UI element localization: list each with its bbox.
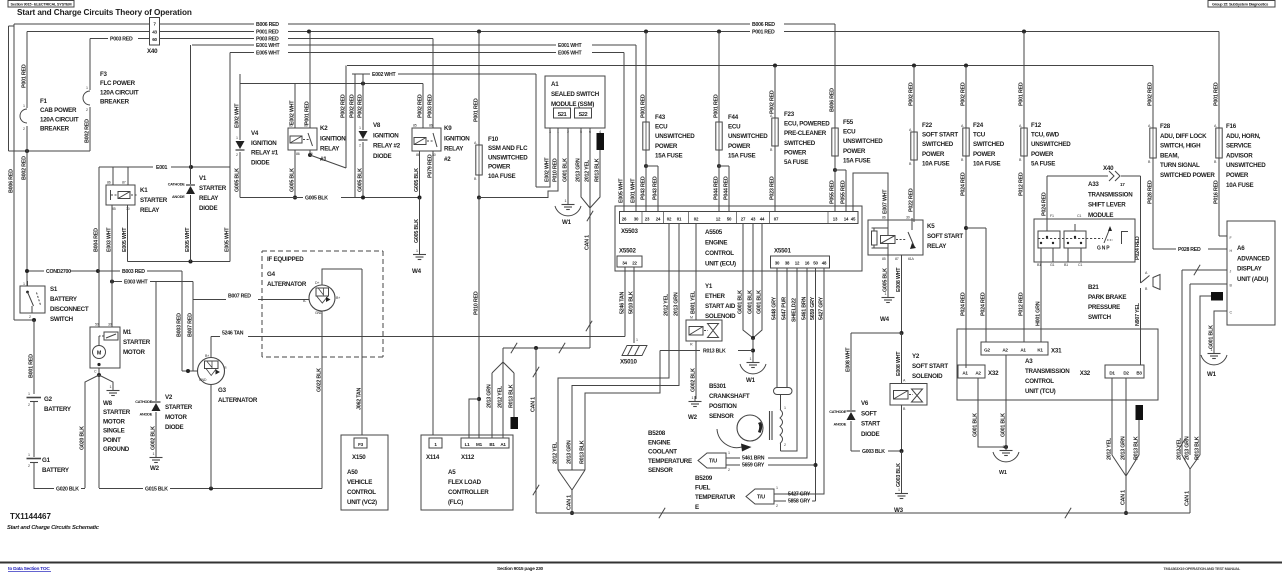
svg-text:MODULE (SSM): MODULE (SSM) (551, 101, 594, 108)
svg-text:SENSOR: SENSOR (709, 413, 734, 420)
svg-text:TEMPERATUR: TEMPERATUR (695, 494, 736, 501)
svg-text:SWITCHED POWER: SWITCHED POWER (1160, 172, 1215, 179)
svg-text:30: 30 (108, 323, 112, 327)
connector X32 left strip (958, 365, 985, 378)
connector X112 strip (461, 438, 509, 448)
wire E002 branch to K9 (422, 84, 424, 129)
svg-text:X5502: X5502 (619, 248, 636, 255)
wire P010 RED down to FLC (478, 198, 480, 439)
wire B001 YEL ECU to Y1 (695, 224, 697, 321)
module A5505 engine control unit (ECU) outline (615, 206, 862, 271)
svg-text:POWER: POWER (843, 148, 866, 155)
svg-text:BATTERY: BATTERY (44, 406, 72, 413)
svg-text:1: 1 (776, 486, 778, 490)
diode V2 starter motor diode (155, 282, 157, 402)
svg-text:5461 BRN: 5461 BRN (801, 296, 807, 320)
svg-text:SINGLE: SINGLE (103, 428, 125, 435)
svg-text:P016 RED: P016 RED (1213, 180, 1219, 204)
svg-text:E002 WHT: E002 WHT (544, 157, 550, 182)
wire P010 RED from SSM (557, 128, 559, 180)
svg-text:CATHODE: CATHODE (135, 400, 152, 404)
svg-text:W1: W1 (1207, 371, 1217, 378)
svg-text:RELAY: RELAY (320, 146, 340, 153)
svg-text:5448 GRY: 5448 GRY (771, 296, 777, 320)
svg-text:B002 RED: B002 RED (84, 119, 90, 143)
svg-text:1: 1 (86, 86, 88, 90)
dashed box IF EQUIPPED (262, 250, 383, 252)
svg-text:SHIFT LEVER: SHIFT LEVER (1088, 202, 1126, 209)
svg-text:CAN 1: CAN 1 (530, 397, 536, 412)
wire R013 BLK with terminator from SSM (597, 133, 605, 150)
wire 2013 GRN to FLC B1 (491, 373, 493, 438)
wire G003 BLK row (901, 405, 903, 451)
wire E002 WHT from SSM (536, 128, 550, 187)
svg-text:X112: X112 (461, 454, 475, 461)
svg-text:P002 RED: P002 RED (340, 94, 346, 118)
svg-text:P043 RED: P043 RED (640, 176, 646, 200)
svg-text:P079 RED: P079 RED (427, 154, 433, 178)
junction dots on P002 row (773, 64, 777, 68)
svg-text:Y2: Y2 (912, 353, 920, 360)
svg-text:S1: S1 (50, 286, 58, 293)
svg-text:F1: F1 (40, 98, 48, 105)
svg-text:2: 2 (86, 108, 88, 112)
wire CAN 1 drop from SSM (589, 208, 591, 348)
svg-text:UNSWITCHED: UNSWITCHED (1226, 162, 1266, 169)
fuse F44 ECU unswitched 15A (718, 32, 720, 123)
relay K1 starter relay (106, 185, 135, 205)
wire K9 coil to G005 bus and W4 (419, 151, 421, 198)
svg-text:G002 BLK: G002 BLK (150, 426, 156, 450)
svg-text:P043 RED: P043 RED (652, 176, 658, 200)
svg-text:M1: M1 (476, 442, 483, 447)
svg-text:1: 1 (23, 282, 25, 286)
CAN chevron merge under TCU (1112, 455, 1126, 476)
wire ADU pin J CAN (1182, 269, 1227, 271)
svg-text:P012 RED: P012 RED (1018, 292, 1024, 316)
wire G003 BLK to W3 (901, 451, 903, 491)
svg-text:STARTER: STARTER (123, 339, 151, 346)
svg-text:Start and Charge Circuits Sche: Start and Charge Circuits Schematic (7, 525, 100, 531)
wire 5010 BLK from ECU pin 22 to X5010 (633, 267, 635, 343)
svg-text:P001 RED: P001 RED (473, 98, 479, 122)
fuse F23 ECU powered pre-cleaner 5A (774, 66, 776, 119)
svg-text:R013 BLK: R013 BLK (579, 440, 585, 464)
svg-text:5427 GRY: 5427 GRY (788, 492, 811, 498)
svg-text:FLC POWER: FLC POWER (100, 80, 136, 87)
wire FLC L1 stub (469, 399, 479, 438)
svg-text:G005 BLK: G005 BLK (234, 168, 240, 192)
svg-text:START AID: START AID (705, 303, 736, 310)
svg-text:Group 15: SubSystem Diagnostic: Group 15: SubSystem Diagnostics (1212, 1, 1268, 6)
svg-text:SHIELD22: SHIELD22 (791, 298, 797, 322)
svg-text:S22: S22 (579, 112, 588, 118)
alternator G4 (309, 285, 335, 311)
svg-text:TCU: TCU (973, 132, 986, 139)
svg-text:P002 RED: P002 RED (349, 94, 355, 118)
svg-text:FUEL: FUEL (695, 485, 711, 492)
svg-text:5246 TAN: 5246 TAN (222, 331, 244, 337)
svg-text:R013 BLK: R013 BLK (594, 158, 600, 182)
wire 5427 GRY from B5209 (774, 493, 786, 495)
wire G020 BLK battery return loop (34, 463, 54, 489)
wire G022 BLK from G4 ground (321, 311, 323, 489)
svg-text:P003 RED: P003 RED (110, 37, 133, 43)
svg-text:FLEX LOAD: FLEX LOAD (448, 479, 482, 486)
svg-text:G003 BLK: G003 BLK (896, 463, 902, 487)
svg-text:B5208: B5208 (648, 430, 666, 437)
svg-text:E005 WHT: E005 WHT (618, 178, 624, 203)
junction dot G3 input (182, 370, 198, 372)
svg-text:X5010: X5010 (620, 359, 637, 366)
A33 connector block 1 (1038, 231, 1060, 248)
svg-text:IGNITION: IGNITION (444, 135, 470, 142)
svg-text:85: 85 (413, 124, 417, 128)
wire K2 output to P002 net (308, 153, 312, 157)
svg-text:B006 RED: B006 RED (8, 169, 14, 193)
CAN chevron merge to bus (558, 469, 585, 471)
svg-text:C1: C1 (1078, 263, 1082, 267)
svg-text:K1: K1 (140, 187, 148, 194)
wire X31 A2 to ground W1 (1005, 355, 1007, 447)
wire K2 coil to G005 bus (294, 150, 296, 198)
alternator G3 (198, 358, 225, 385)
svg-text:43: 43 (152, 30, 157, 35)
svg-text:F28: F28 (1160, 123, 1171, 130)
svg-text:P010 RED: P010 RED (552, 158, 558, 182)
wire P028 RED to ADU pin H (1153, 248, 1176, 250)
svg-text:SERVICE: SERVICE (1226, 143, 1251, 150)
svg-text:G2: G2 (984, 348, 990, 353)
svg-text:G001 BLK: G001 BLK (1208, 325, 1214, 349)
svg-text:IGNITION: IGNITION (373, 132, 399, 139)
A33 connector block 2 (1064, 231, 1086, 248)
relay K5 soft start relay (868, 220, 923, 255)
wire to W8 ground (99, 375, 113, 388)
svg-text:D2: D2 (1123, 371, 1129, 376)
wire CAN 1 drop to main bus (535, 348, 537, 513)
wire G005 BLK K5 to W4 (887, 255, 889, 295)
svg-text:P012 RED: P012 RED (1018, 172, 1024, 196)
diode V1 starter relay diode (190, 45, 192, 167)
wire SHIELD22 (781, 268, 798, 451)
svg-text:5447 PUR: 5447 PUR (781, 297, 787, 320)
wire P010 RED junction to SSM (479, 180, 558, 198)
svg-text:RELAY #1: RELAY #1 (251, 150, 279, 157)
svg-text:Start and Charge Circuits Theo: Start and Charge Circuits Theory of Oper… (17, 8, 192, 17)
svg-text:PARK BRAKE: PARK BRAKE (1088, 294, 1126, 301)
svg-text:ADU, DIFF LOCK: ADU, DIFF LOCK (1160, 133, 1207, 140)
svg-text:CAN 1: CAN 1 (1120, 490, 1126, 505)
svg-text:V4: V4 (251, 130, 259, 137)
svg-text:F23: F23 (784, 111, 795, 118)
wire E003 WHT row (112, 281, 122, 283)
svg-text:UNIT (ECU): UNIT (ECU) (705, 261, 736, 268)
svg-text:V1: V1 (199, 175, 207, 182)
svg-text:X114: X114 (426, 454, 440, 461)
fuse F24 TCU switched 10A (965, 66, 967, 129)
svg-text:CAN 1: CAN 1 (584, 235, 590, 250)
svg-text:86: 86 (296, 152, 300, 156)
svg-text:B1: B1 (1064, 263, 1068, 267)
svg-text:5461 BRN: 5461 BRN (742, 456, 765, 462)
svg-text:15A FUSE: 15A FUSE (843, 157, 870, 164)
fuse F28 ADU diff lock switched (1152, 66, 1154, 129)
svg-text:B003 RED: B003 RED (122, 269, 145, 275)
svg-text:B1: B1 (489, 442, 495, 447)
wire J062 TAN to A50 (361, 269, 363, 435)
svg-text:X150: X150 (352, 454, 366, 461)
wire E005 WHT row (230, 52, 254, 54)
svg-text:ENGINE: ENGINE (705, 240, 727, 247)
svg-text:ETHER: ETHER (705, 293, 726, 300)
svg-text:M: M (690, 316, 693, 320)
svg-text:DIODE: DIODE (165, 424, 183, 431)
starter motor M1 (90, 327, 120, 368)
svg-text:X32: X32 (1080, 370, 1091, 377)
svg-text:1: 1 (728, 451, 730, 455)
svg-text:STARTER: STARTER (199, 185, 227, 192)
wire P003 RED row (90, 38, 108, 40)
svg-text:P001 RED: P001 RED (1213, 82, 1219, 106)
switch S21 cell (554, 108, 571, 118)
module A50 vehicle control unit (VC2) (341, 435, 388, 510)
svg-text:CONTROL: CONTROL (1025, 378, 1054, 385)
diode V4 ignition relay #1 diode (239, 74, 241, 140)
svg-text:POWER: POWER (488, 164, 511, 171)
svg-text:5A FUSE: 5A FUSE (784, 159, 808, 166)
svg-text:G3: G3 (218, 387, 227, 394)
svg-text:UNIT (TCU): UNIT (TCU) (1025, 388, 1056, 395)
svg-text:W1: W1 (746, 377, 756, 384)
wire N907 YEL B21 to TCU B3 (1140, 288, 1142, 365)
svg-text:2012 YEL: 2012 YEL (1106, 437, 1112, 460)
fuse F43 ECU unswitched 15A (645, 32, 647, 123)
svg-text:BREAKER: BREAKER (40, 126, 70, 133)
wire P024 RED branch to X31 G2 (985, 228, 987, 342)
svg-text:G4: G4 (267, 271, 276, 278)
wire E001 coil line over K1 (99, 166, 153, 168)
svg-text:DISCONNECT: DISCONNECT (50, 306, 89, 313)
svg-text:P044 RED: P044 RED (713, 176, 719, 200)
wire F3 bottom joining B002 (9, 150, 91, 152)
svg-text:86: 86 (882, 216, 886, 220)
svg-text:120A CIRCUIT: 120A CIRCUIT (40, 116, 79, 123)
svg-text:CAN 1: CAN 1 (566, 495, 572, 510)
wire CAN 1 main bus (536, 512, 1190, 514)
svg-text:UNSWITCHED: UNSWITCHED (843, 138, 883, 145)
svg-text:CATHODE: CATHODE (168, 183, 185, 187)
switch S22 cell (575, 108, 592, 118)
svg-text:ECU: ECU (655, 124, 668, 131)
wire P001 RED to K2 pin 87 (309, 32, 311, 129)
svg-text:G020 BLK: G020 BLK (56, 487, 79, 493)
wire P002 RED long row (347, 65, 1153, 67)
svg-text:X31: X31 (1051, 348, 1062, 355)
connector X31 strip (981, 342, 1048, 355)
svg-text:SWITCHED: SWITCHED (784, 140, 816, 147)
wire 5461 BRN label (726, 457, 740, 459)
svg-text:X32: X32 (988, 370, 999, 377)
svg-text:SWITCH: SWITCH (1088, 314, 1112, 321)
svg-text:2: 2 (784, 443, 786, 447)
svg-text:CONTROL: CONTROL (347, 489, 376, 496)
svg-text:P024 RED: P024 RED (1135, 236, 1141, 260)
header box right: Group SubSystem Diagnostics (1208, 1, 1275, 8)
svg-text:G005 BLK: G005 BLK (357, 168, 363, 192)
wire E005 WHT into ECU pin 26 (623, 53, 625, 212)
wire E002 WHT row (352, 73, 370, 75)
svg-text:1: 1 (636, 338, 638, 342)
svg-text:PRESSURE: PRESSURE (1088, 304, 1120, 311)
svg-text:A50: A50 (347, 469, 358, 476)
svg-text:G001 BLK: G001 BLK (1000, 413, 1006, 437)
wire E001 WHT row (192, 44, 254, 46)
svg-text:UNSWITCHED: UNSWITCHED (1031, 141, 1071, 148)
A33 lever linkage dashed (1038, 238, 1103, 240)
svg-text:P010 RED: P010 RED (473, 291, 479, 315)
svg-text:P044 RED: P044 RED (723, 176, 729, 200)
svg-text:E001 WHT: E001 WHT (630, 178, 636, 203)
svg-text:POSITION: POSITION (709, 403, 737, 410)
wire 5461 BRN to B5208 (768, 268, 807, 458)
svg-text:2: 2 (359, 144, 361, 148)
wire P001 RED to F10 (478, 32, 480, 146)
svg-text:E005 WHT: E005 WHT (224, 227, 230, 252)
wire 5448 GRY to B5301 (776, 268, 778, 388)
fuse F16 ADU horn service advisor (1218, 32, 1220, 129)
svg-text:TURN SIGNAL: TURN SIGNAL (1160, 162, 1200, 169)
svg-text:A5505: A5505 (705, 229, 723, 236)
wire 2013 GRN TCU D2 (1125, 378, 1127, 465)
fuse F55 ECU unswitched 15A (834, 24, 836, 128)
svg-text:1: 1 (28, 453, 30, 457)
svg-text:L1: L1 (465, 442, 471, 447)
wire E005 WHT K1 pin30 drop (127, 205, 129, 262)
svg-text:DIODE: DIODE (861, 431, 879, 438)
wire G4 D+ output to J062 (322, 269, 362, 285)
svg-text:POWER: POWER (784, 149, 807, 156)
svg-text:2: 2 (23, 127, 25, 131)
wire 5447 PUR to B5301 (786, 268, 788, 388)
svg-text:E003 WHT: E003 WHT (124, 280, 148, 286)
svg-text:E002 WHT: E002 WHT (234, 103, 240, 128)
svg-text:B+: B+ (336, 296, 340, 300)
wire K1 pin86 up (112, 167, 114, 185)
svg-text:P024 RED: P024 RED (960, 172, 966, 196)
svg-text:P022 RED: P022 RED (908, 188, 914, 212)
svg-text:G022 BLK: G022 BLK (316, 368, 322, 392)
svg-text:A2: A2 (975, 371, 981, 376)
wire P001 RED top bus (27, 31, 150, 33)
wire R013 BLK terminator near FLC (513, 373, 515, 417)
wire 5246 TAN from ECU pin 34 (624, 267, 626, 337)
svg-text:ECU: ECU (843, 129, 856, 136)
svg-text:SOFT START: SOFT START (927, 233, 963, 240)
wire X32 A2 to ground W1 (978, 378, 1006, 447)
svg-text:E005 WHT: E005 WHT (256, 51, 280, 57)
svg-text:P024 RED: P024 RED (960, 292, 966, 316)
svg-text:W1: W1 (562, 219, 572, 226)
wire 5246 TAN from G3 (211, 336, 220, 338)
svg-text:B006 RED: B006 RED (829, 88, 835, 112)
junction dot P024 split (964, 226, 968, 230)
svg-text:E008 WHT: E008 WHT (896, 351, 902, 376)
svg-text:ENGINE: ENGINE (648, 439, 670, 446)
svg-text:B21: B21 (1088, 284, 1099, 291)
svg-text:ADVISOR: ADVISOR (1226, 152, 1253, 159)
svg-text:G N P: G N P (1097, 246, 1110, 252)
svg-text:CAB POWER: CAB POWER (40, 107, 77, 114)
svg-text:G005 BLK: G005 BLK (289, 168, 295, 192)
svg-text:CRANKSHAFT: CRANKSHAFT (709, 393, 750, 400)
svg-text:G1: G1 (42, 457, 51, 464)
svg-text:P055 RED: P055 RED (829, 180, 835, 204)
svg-text:IGNITION: IGNITION (320, 135, 346, 142)
svg-text:BREAKER: BREAKER (100, 99, 130, 106)
svg-text:Section 9015 page 230: Section 9015 page 230 (497, 566, 544, 572)
svg-text:F24: F24 (973, 122, 984, 129)
svg-text:F43: F43 (655, 114, 666, 121)
svg-text:A33: A33 (1088, 181, 1099, 188)
svg-text:1: 1 (1211, 348, 1213, 352)
svg-text:E005 WHT: E005 WHT (558, 51, 582, 57)
svg-text:P002 RED: P002 RED (417, 94, 423, 118)
switch S1 battery disconnect (20, 286, 45, 313)
svg-text:120A CIRCUIT: 120A CIRCUIT (100, 89, 139, 96)
svg-text:X5503: X5503 (621, 228, 638, 235)
svg-text:E001 WHT: E001 WHT (558, 43, 582, 49)
svg-text:B006 RED: B006 RED (752, 22, 775, 28)
svg-text:B001 RED: B001 RED (28, 354, 34, 378)
wire B006 RED top bus (14, 23, 150, 25)
svg-text:SOFT START: SOFT START (912, 363, 948, 370)
svg-text:TM14363X19 OPERATION AND TEST: TM14363X19 OPERATION AND TEST MANUAL (1163, 566, 1240, 571)
svg-text:G005 BLK: G005 BLK (414, 219, 420, 243)
wire 2012 YEL TCU D1 (1111, 378, 1113, 455)
svg-text:ECU: ECU (728, 124, 741, 131)
svg-text:A1: A1 (551, 81, 559, 88)
svg-text:POWER: POWER (655, 143, 678, 150)
svg-text:F44: F44 (728, 114, 739, 121)
svg-text:COOLANT: COOLANT (648, 449, 677, 456)
svg-text:G2: G2 (44, 396, 53, 403)
wire CAN Y-split to FLC (502, 348, 504, 362)
svg-text:J062 TAN: J062 TAN (356, 387, 362, 410)
svg-text:DIODE: DIODE (373, 153, 391, 160)
svg-text:DISPLAY: DISPLAY (1237, 266, 1263, 273)
svg-text:P002 RED: P002 RED (769, 90, 775, 114)
fuse F12 TCU 6WD unswitched 5A (1023, 32, 1025, 129)
svg-text:POWER: POWER (922, 151, 945, 158)
wire P002 RED stub (354, 74, 356, 198)
rotation arrow of B5301 (717, 429, 742, 448)
svg-text:2013 GRN: 2013 GRN (486, 384, 492, 408)
svg-text:S21: S21 (558, 112, 567, 118)
wire 2012 YEL to FLC A1 (502, 362, 504, 438)
svg-text:5427 GRY: 5427 GRY (818, 296, 824, 320)
svg-text:A5: A5 (448, 469, 456, 476)
wire 5659 GRY shared return (815, 268, 817, 501)
wire E003 WHT K1 pin85 drop (111, 205, 113, 327)
circuit breaker F3 (89, 39, 91, 91)
svg-text:10A FUSE: 10A FUSE (488, 173, 515, 180)
svg-text:E008 WHT: E008 WHT (845, 347, 851, 372)
svg-text:P001 RED: P001 RED (640, 94, 646, 118)
svg-text:IGNITION: IGNITION (251, 140, 277, 147)
svg-text:P001 RED: P001 RED (1018, 82, 1024, 106)
wire E008 WHT K5 pin 87 (901, 255, 903, 333)
